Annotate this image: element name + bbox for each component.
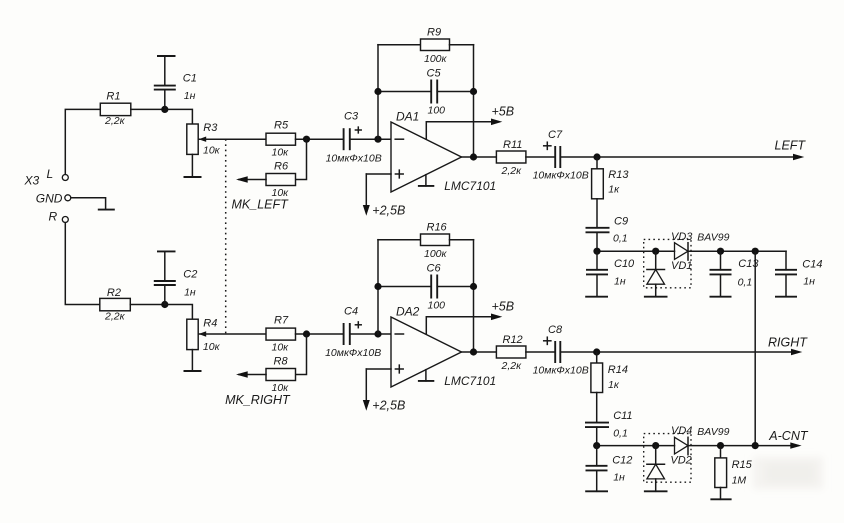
svg-text:C4: C4 [344,306,358,318]
node R15 [717,442,724,449]
node branch down [752,248,759,255]
wire R4 wiper to R7 [198,333,266,335]
power +2,5V DA2 [363,369,406,413]
resistor R15 [715,446,753,500]
svg-text:100к: 100к [424,53,448,65]
wire R13 to C9 [596,199,598,228]
ground GND pin [98,209,115,211]
svg-text:R: R [49,210,58,224]
ground C10 [585,296,608,298]
ground VD1 [644,296,668,298]
feedback left vertical wire DA2 [377,240,379,334]
wire C6 right [437,286,473,288]
upper clamp node wire [597,250,675,252]
node C6 left [374,283,381,290]
resistor R14 [591,363,628,393]
wire R2 to node [130,304,165,306]
resistor R12 [496,334,526,372]
power +5V DA1 [426,104,514,139]
svg-text:C11: C11 [613,410,632,422]
svg-text:GND: GND [36,192,63,206]
wire R6 branch [296,139,307,179]
wire R9 left [378,44,421,46]
wire R8 to MK_RIGHT arrow [239,374,266,376]
capacitor C5 [427,68,446,117]
capacitor C7 [533,129,589,182]
svg-text:C3: C3 [344,111,359,123]
svg-text:R3: R3 [203,122,218,134]
svg-text:MK_RIGHT: MK_RIGHT [225,393,291,407]
svg-text:+2,5В: +2,5В [372,399,405,413]
svg-text:C9: C9 [614,216,628,228]
resistor R7 [266,314,296,353]
op-amp DA1 [391,109,496,193]
svg-text:+5В: +5В [492,104,515,118]
svg-text:BAV99: BAV99 [697,426,729,438]
svg-text:LMC7101: LMC7101 [444,374,496,388]
feedback right vertical wire DA1 [473,45,475,157]
ground pin DA2 [418,370,434,381]
node R5-R6 [303,136,310,143]
svg-text:0,1: 0,1 [738,276,753,288]
svg-text:C7: C7 [548,129,563,141]
resistor R1 [100,90,131,127]
node DA2 output [470,348,477,355]
wire C6 left [378,286,431,288]
resistor R5 [266,120,296,159]
svg-text:1н: 1н [184,286,196,298]
svg-text:R4: R4 [203,318,217,330]
capacitor C10 [586,251,635,297]
resistor R2 [100,287,131,323]
wire R6 to MK_LEFT arrow [239,179,266,181]
wire node to R3 [165,109,193,124]
capacitor C4 [325,306,381,360]
node C7-R13 [593,153,600,160]
svg-text:R6: R6 [274,161,289,173]
svg-text:2,2к: 2,2к [104,115,126,127]
diode VD4 [671,425,692,455]
svg-text:R2: R2 [107,287,121,299]
output arrow A-CNT [790,442,801,448]
node VD2 anode [652,442,659,449]
svg-text:10мкФх10В: 10мкФх10В [325,347,381,359]
svg-text:C5: C5 [427,68,442,80]
node C9-C10 [593,248,600,255]
capacitor C11 [585,410,633,439]
node inverting input DA2 [374,330,381,337]
capacitor C8 [533,324,589,377]
wire R14 to C11 [596,393,598,423]
node VD1 anode [652,248,659,255]
svg-text:R13: R13 [608,169,629,181]
wire R9 right [450,44,474,46]
svg-text:BAV99: BAV99 [697,232,729,244]
capacitor C3 [326,111,382,165]
wire node to R13 [596,157,598,169]
wire R8 branch [296,334,307,375]
capacitor C1 [154,56,197,109]
power +5V DA2 [426,299,514,334]
wire R16 left [378,239,421,241]
svg-text:10мкФх10В: 10мкФх10В [533,365,589,377]
svg-text:100к: 100к [424,248,448,260]
svg-text:100: 100 [428,104,446,116]
diode VD2 [647,446,692,492]
svg-text:R7: R7 [274,314,289,326]
svg-text:0,1: 0,1 [613,233,628,245]
svg-text:C2: C2 [183,268,197,280]
svg-text:L: L [47,167,54,181]
wire node to R14 [596,352,598,363]
svg-text:2,2к: 2,2к [501,360,523,372]
wire C5 right [437,91,473,93]
resistor R6 [266,161,296,199]
svg-text:1к: 1к [608,184,620,196]
svg-text:RIGHT: RIGHT [768,336,808,350]
ground VD2 [644,490,668,492]
diode VD1 [647,251,693,297]
svg-text:DA1: DA1 [396,109,419,123]
connector X3 [24,167,71,224]
ground R3 [184,176,202,178]
capacitor C12 [586,446,633,492]
wire R16 right [450,239,474,241]
svg-text:1н: 1н [614,275,626,287]
wire R5 to C3 [296,138,344,140]
wire GND pin stub [71,198,106,210]
svg-text:VD4: VD4 [671,425,692,437]
wire R12 to C8 [526,351,555,353]
svg-text:C1: C1 [183,73,197,85]
node C2-R2-R4 [161,301,168,308]
wire DA1 output to R11 [462,156,497,158]
potentiometer R3 [187,122,221,156]
potentiometer R4 [187,318,221,353]
wire C8 to RIGHT output [560,351,798,353]
svg-text:VD2: VD2 [670,454,691,466]
output arrow LEFT [793,154,804,160]
svg-text:R9: R9 [427,27,441,39]
svg-text:+2,5В: +2,5В [372,204,405,218]
node branch join [752,442,759,449]
resistor R16 [421,222,450,260]
dotted package box VD3/VD1 [644,239,691,287]
svg-text:R5: R5 [274,120,289,132]
wire R pin to R2 [65,223,100,305]
svg-text:1н: 1н [803,276,815,288]
wire R3 to ground [191,154,193,177]
svg-text:+5В: +5В [492,299,515,313]
op-amp DA2 [391,304,496,388]
wire branch down to A-CNT node [754,251,756,445]
svg-text:R16: R16 [427,222,448,234]
wire L pin to R1 [65,109,100,174]
ground C14 [775,296,797,298]
wire node to R4 [165,305,193,320]
feedback right vertical wire DA2 [473,240,475,352]
wire C11 to node [596,427,598,446]
resistor R8 [266,356,296,394]
wire R3 wiper to R5 [198,138,266,140]
svg-text:10мкФх10В: 10мкФх10В [326,153,382,165]
capacitor C2 [154,251,198,304]
svg-text:R14: R14 [608,364,628,376]
node inverting input DA1 [374,136,381,143]
svg-text:R8: R8 [274,356,289,368]
svg-text:2,2к: 2,2к [501,165,523,177]
svg-text:R12: R12 [503,334,523,346]
wire C4 to inverting input [350,333,391,335]
svg-text:1к: 1к [608,379,620,391]
wire C3 to inverting input [350,138,391,140]
svg-text:X3: X3 [24,174,40,188]
svg-text:LMC7101: LMC7101 [444,179,496,193]
wire noninverting input DA1 [366,173,391,175]
ground R15 [710,498,731,500]
node R7-R8 [303,330,310,337]
resistor R9 [421,27,450,65]
wire noninverting input DA2 [366,368,391,370]
svg-text:DA2: DA2 [396,304,420,318]
capacitor C14 [775,251,822,297]
wire R11 to C7 [526,156,555,158]
svg-text:C13: C13 [738,258,759,270]
svg-text:A-CNT: A-CNT [768,429,809,443]
wire R1 to node [131,108,165,110]
svg-text:2,2к: 2,2к [104,311,126,323]
capacitor C9 [586,216,629,245]
dotted package box VD4/VD2 [644,434,691,483]
wire C5 left [378,91,431,93]
gang dotted link R3-R4 [225,139,227,334]
svg-text:R1: R1 [106,90,120,102]
node C1-R1-R3 [161,106,168,113]
diode VD3 [671,231,693,260]
node C13 [717,248,724,255]
svg-text:10к: 10к [272,382,290,394]
ground C12 [585,490,608,492]
node DA1 output [470,153,477,160]
svg-text:10к: 10к [203,144,221,156]
svg-text:10к: 10к [272,147,290,159]
wire C7 to LEFT output [560,156,800,158]
svg-text:1н: 1н [184,90,196,102]
node C6 right [470,283,477,290]
wire R7 to C4 [296,333,344,335]
svg-text:C10: C10 [614,258,635,270]
svg-text:R11: R11 [503,139,522,151]
svg-text:R15: R15 [732,459,753,471]
wire R4 to ground [191,350,193,371]
resistor R11 [496,139,526,177]
svg-text:LEFT: LEFT [775,139,807,153]
wire DA2 output to R12 [462,351,497,353]
capacitor C6 [427,263,446,312]
ground R4 [184,370,202,372]
power +2,5V DA1 [363,174,406,218]
svg-text:MK_LEFT: MK_LEFT [232,198,290,212]
svg-text:1М: 1М [732,475,747,487]
svg-text:C14: C14 [802,258,822,270]
svg-text:C8: C8 [548,324,563,336]
svg-text:C6: C6 [427,263,442,275]
node C5 left [374,88,381,95]
node C8-R14 [593,348,600,355]
node C11-C12 [593,442,600,449]
ground pin DA1 [418,175,434,186]
watermark remnant (faint) [753,457,823,489]
svg-text:100: 100 [428,299,446,311]
capacitor C13 [710,251,760,297]
lower clamp node wire [597,445,675,447]
wire C9 to node [596,232,598,251]
feedback left vertical wire DA1 [377,45,379,140]
svg-text:10мкФх10В: 10мкФх10В [533,170,589,182]
resistor R13 [592,169,630,199]
svg-text:0,1: 0,1 [613,427,628,439]
ground C13 [710,296,732,298]
svg-text:C12: C12 [612,454,632,466]
node C5 right [470,88,477,95]
output arrow RIGHT [791,349,802,355]
svg-text:10к: 10к [272,341,290,353]
svg-text:VD3: VD3 [671,231,693,243]
svg-text:1н: 1н [613,472,625,484]
svg-text:10к: 10к [203,341,221,353]
svg-text:VD1: VD1 [671,260,692,272]
